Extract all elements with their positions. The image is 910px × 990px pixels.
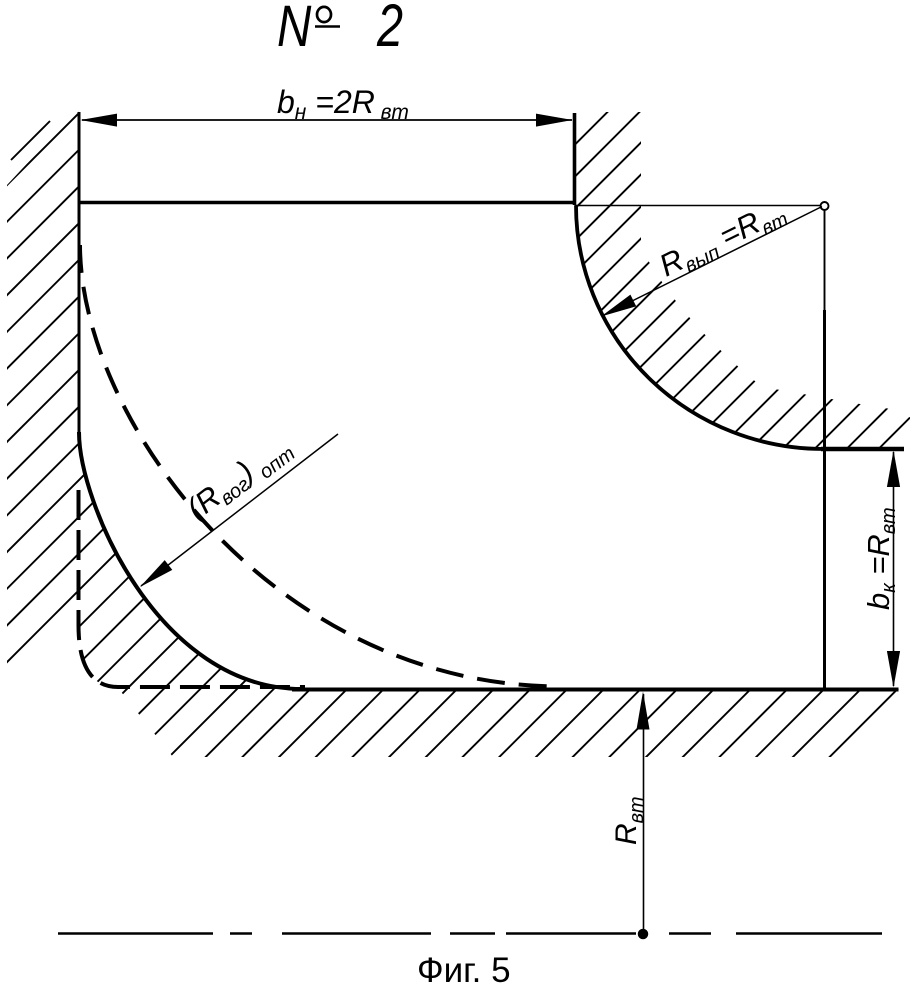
title label "No 2" [277, 0, 403, 59]
wall line: top horizontal wall [78, 201, 577, 205]
svg-text:2: 2 [376, 0, 403, 59]
dimension b_k = R_vt: line and arrowheads [893, 452, 895, 686]
dashed square-corner profile variant [79, 490, 306, 687]
channel edge vertical line x=824.5 [824, 208, 826, 310]
centerline reference point [639, 930, 648, 939]
radius leader arrow R_vyp [602, 207, 822, 317]
dashed optimal concave curve (R vog) opt [80, 245, 560, 687]
concave corner curve variant No2 (solid) [79, 432, 302, 689]
svg-text:N: N [277, 0, 312, 59]
arc center point marker [821, 202, 829, 210]
wall line: upper right vertical wall [573, 113, 577, 205]
wall line: right ledge at y=449 [821, 447, 904, 452]
wall line: bottom horizontal wall [292, 688, 899, 692]
hatching: short stub line top-left [11, 121, 50, 160]
axis centerline (dash-dot) [58, 932, 882, 934]
svg-text:Фиг. 5: Фиг. 5 [417, 951, 511, 990]
convex corner curve (R vyp) [576, 206, 824, 450]
dimension b_n = 2R_vt: line and arrowheads [82, 119, 572, 121]
hatching: top-right corner material [250, 0, 910, 470]
radius leader arrow (R_vog)opt [141, 434, 338, 586]
wall line: left vertical wall [78, 112, 81, 442]
construction line to arc center [575, 205, 822, 207]
radius arrow R_vt from centerline [643, 694, 645, 931]
